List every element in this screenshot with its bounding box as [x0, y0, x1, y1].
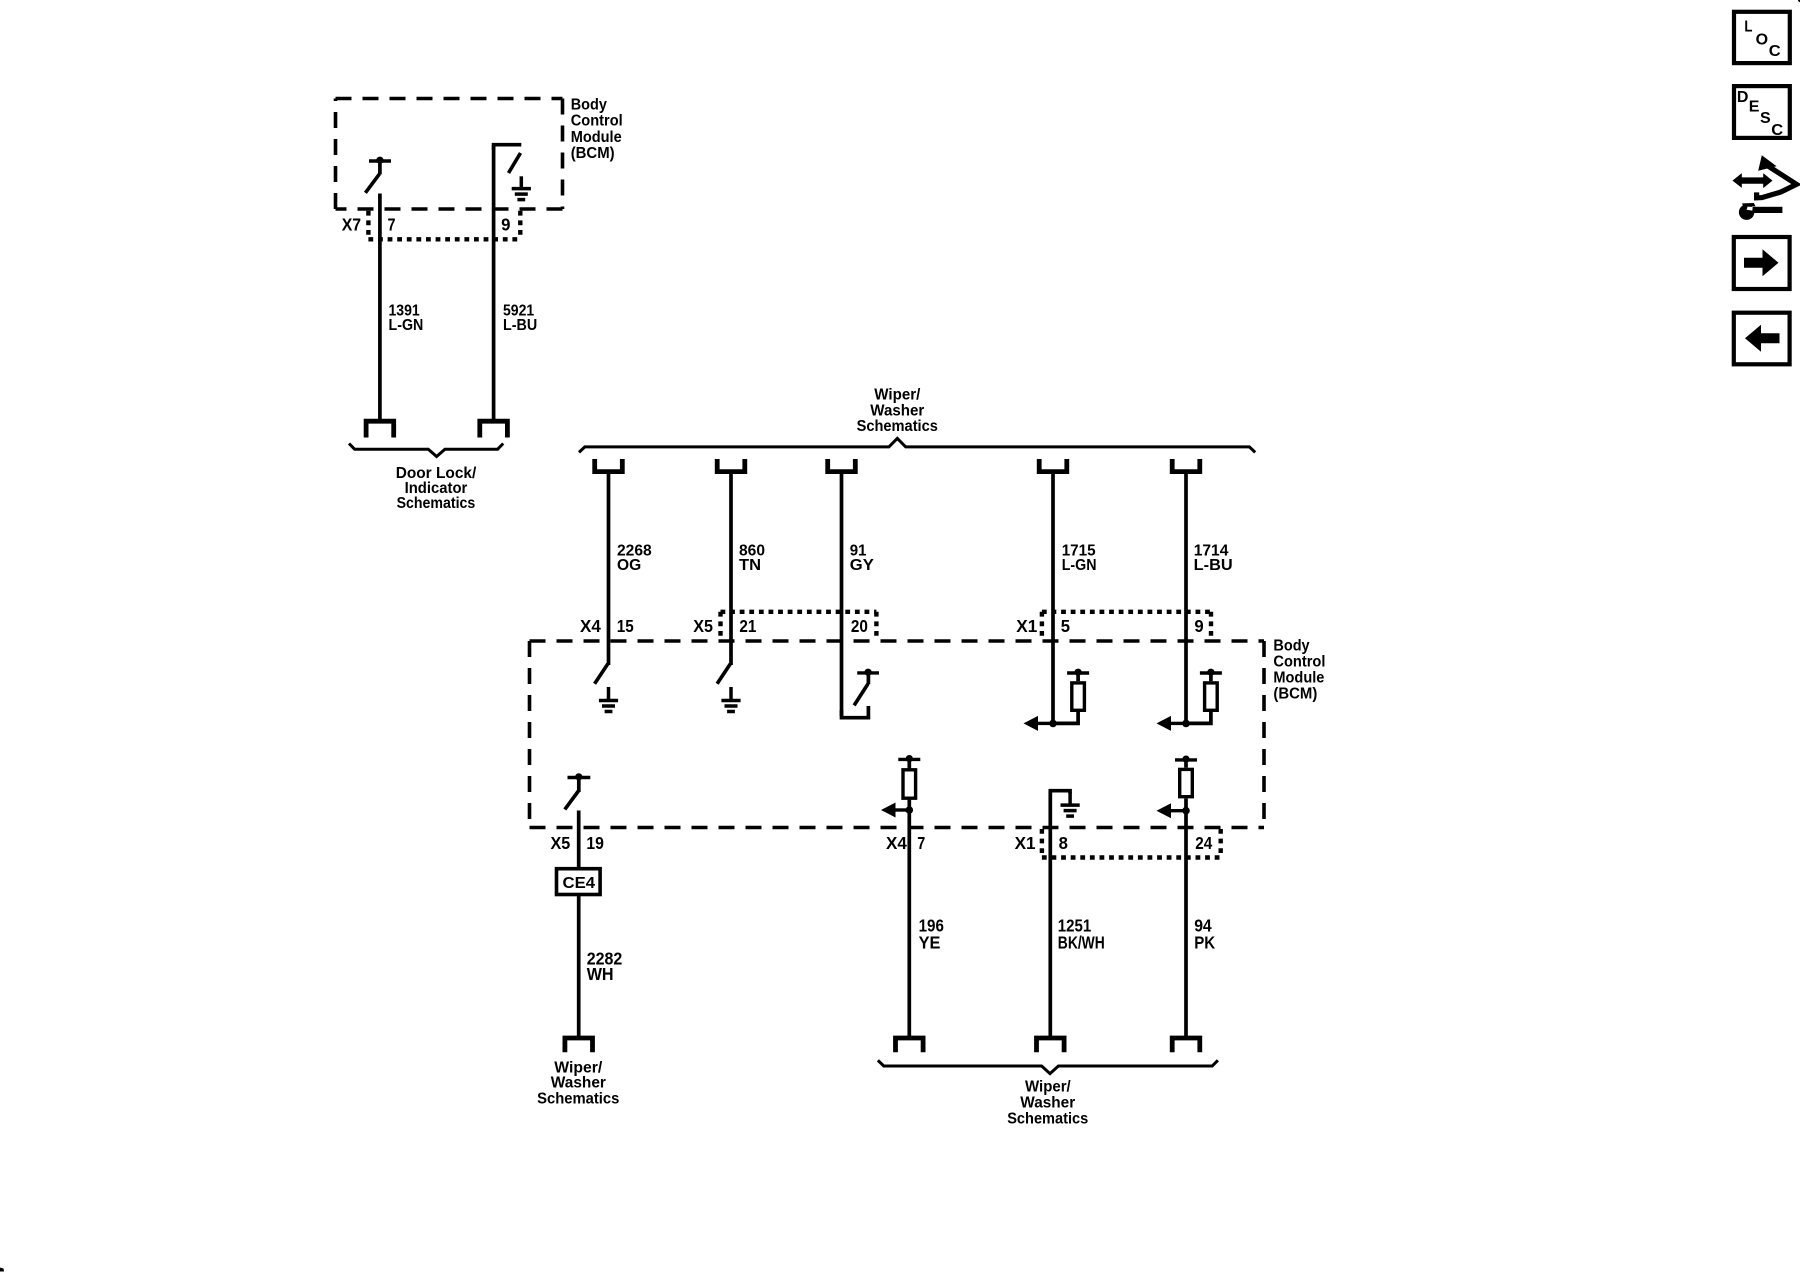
nav icon box DESC	[1734, 86, 1790, 139]
wire label 1391 L-GN	[389, 302, 424, 334]
svg-text:Schematics: Schematics	[397, 495, 476, 512]
svg-text:O: O	[1756, 32, 1768, 49]
label Wiper/ Washer Schematics (bottom-right)	[1007, 1079, 1088, 1128]
driver with resistor and output arrow, BCM pin X1-24	[1157, 756, 1198, 819]
svg-text:L-BU: L-BU	[1194, 557, 1233, 574]
svg-text:Body: Body	[571, 96, 607, 113]
svg-text:GY: GY	[850, 557, 874, 574]
svg-text:X1: X1	[1016, 616, 1037, 636]
nav icon box arrow-right	[1734, 237, 1790, 289]
svg-text:TN: TN	[739, 557, 761, 574]
svg-text:(BCM): (BCM)	[1273, 686, 1317, 703]
svg-text:(BCM): (BCM)	[571, 145, 615, 162]
svg-text:15: 15	[617, 616, 634, 636]
svg-text:X4: X4	[886, 833, 907, 853]
wire: BCM pin X4-7 down to terminal, circuit 196	[907, 810, 911, 1036]
ground symbol inside top-left BCM	[512, 176, 531, 199]
wire label 94 PK	[1194, 915, 1215, 952]
switch to ground, BCM input X4-15	[595, 664, 608, 684]
svg-text:7: 7	[388, 214, 396, 234]
svg-text:YE: YE	[919, 932, 941, 952]
svg-text:Washer: Washer	[1020, 1095, 1075, 1112]
svg-text:WH: WH	[587, 964, 614, 984]
terminal (in-connector) circuit 91	[828, 459, 856, 472]
svg-text:Schematics: Schematics	[1007, 1111, 1088, 1128]
terminal (out) circuit 196	[896, 1038, 924, 1052]
switch S1 inside BCM (door lock output), supply bar with junction dot and blade	[365, 157, 391, 193]
svg-text:20: 20	[851, 616, 868, 636]
terminal (in-connector) circuit 1714	[1172, 459, 1200, 472]
terminal (in-connector) circuit 2268	[595, 459, 623, 472]
svg-text:5: 5	[1061, 616, 1071, 636]
svg-text:E: E	[1749, 99, 1760, 116]
svg-text:L-GN: L-GN	[1062, 557, 1097, 574]
ground symbol for X5-21 input	[721, 687, 740, 712]
wire: BCM pin X5-19 down to CE4	[577, 811, 581, 868]
svg-text:9: 9	[1194, 616, 1204, 636]
wire label 91 GY	[850, 542, 874, 574]
svg-text:Control: Control	[571, 113, 623, 130]
svg-text:X1: X1	[1015, 833, 1036, 853]
svg-text:Module: Module	[571, 129, 622, 146]
nav icon box LOC	[1734, 12, 1790, 63]
svg-text:19: 19	[586, 833, 604, 853]
terminal (out) circuit 94	[1172, 1038, 1200, 1052]
svg-text:PK: PK	[1194, 932, 1215, 952]
svg-text:CE4: CE4	[563, 875, 596, 892]
wire label 1715 L-GN	[1062, 542, 1097, 574]
wire: BCM pin X1-8 down to terminal, circuit 1251	[1048, 791, 1052, 1036]
brace: Door Lock / Indicator Schematics	[349, 444, 503, 457]
driver with pull-up resistor and output arrow, BCM pin X1-5	[1024, 669, 1090, 731]
svg-text:Washer: Washer	[551, 1075, 606, 1092]
svg-text:Wiper/: Wiper/	[1025, 1079, 1071, 1096]
wire: circuit 2268 OG into BCM	[607, 472, 611, 665]
terminal (out-connector) for circuit 1391	[366, 421, 394, 437]
nav icon: jump-to-schematic (double arrow, loop outline, wrench)	[1733, 155, 1797, 220]
wire: BCM pin X7-7 down to terminal, circuit 1391	[378, 194, 382, 422]
in-line connector CE4 box	[557, 869, 601, 895]
terminal (in-connector) circuit 1715	[1039, 459, 1067, 472]
switch S2 inside BCM with internal ground, circuit 5921	[494, 145, 522, 173]
wire: circuit 1714 L-BU into BCM	[1184, 472, 1188, 724]
page mark top-right corner	[1798, 0, 1800, 2]
svg-text:S: S	[1760, 110, 1771, 127]
svg-text:Schematics: Schematics	[537, 1091, 619, 1108]
svg-text:Module: Module	[1273, 670, 1324, 687]
svg-text:X7: X7	[342, 214, 361, 234]
wire label 2282 WH	[587, 949, 623, 984]
svg-text:C: C	[1769, 43, 1781, 60]
connector dotted strip X1 (pins 5,9)	[1042, 612, 1211, 640]
connector dotted strip X1 (pins 8,24) bottom	[1042, 829, 1221, 858]
svg-text:24: 24	[1195, 833, 1212, 853]
brace: Wiper/Washer Schematics (bottom-right)	[878, 1060, 1218, 1073]
driver with resistor and output arrow, BCM pin X4-7	[881, 755, 920, 818]
svg-text:X5: X5	[551, 833, 571, 853]
svg-text:Wiper/: Wiper/	[874, 386, 921, 403]
driver with pull-up resistor and output arrow, BCM pin X1-9	[1157, 669, 1222, 731]
nav icon box arrow-left	[1734, 313, 1790, 365]
svg-text:OG: OG	[617, 557, 641, 574]
svg-text:L-GN: L-GN	[389, 317, 424, 334]
connector dotted strip X5 (pins 21,20)	[721, 612, 877, 640]
svg-text:D: D	[1737, 89, 1749, 106]
wire: CE4 down to terminal, circuit 2282	[577, 896, 581, 1037]
ground symbol for X4-15 input	[599, 687, 618, 712]
svg-text:Body: Body	[1273, 638, 1309, 655]
svg-text:X5: X5	[693, 616, 713, 636]
switch output to pin X5-19 (supply bar, blade)	[565, 773, 591, 809]
svg-text:9: 9	[501, 214, 511, 234]
label Wiper/ Washer Schematics (bottom-left)	[537, 1060, 619, 1108]
module box: Body Control Module (BCM) top-left, dashed outline	[336, 99, 563, 210]
svg-text:8: 8	[1059, 833, 1069, 853]
terminal (out) circuit 1251	[1037, 1038, 1065, 1052]
switch (wiper park sense), BCM input 20	[842, 669, 880, 718]
svg-text:Control: Control	[1273, 654, 1325, 671]
wire: circuit 860 TN into BCM	[729, 472, 733, 665]
wire label 1251 BK/WH	[1058, 915, 1105, 952]
wire label 196 YE	[919, 915, 945, 952]
wire: circuit 1715 L-GN into BCM	[1051, 472, 1055, 724]
wire label 2268 OG	[617, 542, 652, 574]
wire label 5921 L-BU	[503, 302, 537, 334]
svg-text:7: 7	[917, 833, 925, 853]
label Body Control Module (BCM) middle-right	[1273, 638, 1325, 703]
terminal (out) circuit 2282	[565, 1038, 593, 1052]
wire: BCM pin X1-24 down to terminal, circuit 94	[1184, 811, 1188, 1036]
label Wiper/ Washer Schematics (top)	[857, 386, 938, 435]
svg-text:L-BU: L-BU	[503, 317, 537, 334]
svg-text:21: 21	[739, 616, 756, 636]
svg-text:Washer: Washer	[870, 402, 924, 419]
terminal (in-connector) circuit 860	[717, 459, 745, 472]
internal ground for BCM pin X1-8	[1050, 791, 1079, 816]
terminal (out-connector) for circuit 5921	[480, 421, 508, 437]
brace: Wiper/Washer Schematics feed (top)	[579, 438, 1255, 452]
svg-text:C: C	[1771, 122, 1783, 139]
svg-text:X4: X4	[580, 616, 601, 636]
wire label 1714 L-BU	[1194, 542, 1233, 574]
wire: circuit 91 GY into BCM	[840, 472, 844, 716]
module box: Body Control Module (BCM) middle, dashed outline	[530, 641, 1265, 828]
connector X7 dotted strip (top-left)	[368, 211, 520, 240]
switch to ground, BCM input X5-21	[717, 664, 730, 684]
wire: BCM pin X7-9 down to terminal, circuit 5921	[492, 145, 496, 422]
svg-text:Schematics: Schematics	[857, 418, 938, 435]
label Door Lock/ Indicator Schematics	[396, 465, 477, 512]
page mark speck bottom-left	[0, 1268, 4, 1272]
wire label 860 TN	[739, 542, 765, 574]
svg-text:L: L	[1744, 19, 1752, 36]
svg-text:BK/WH: BK/WH	[1058, 932, 1105, 952]
label Body Control Module (BCM) top-left	[571, 96, 623, 162]
